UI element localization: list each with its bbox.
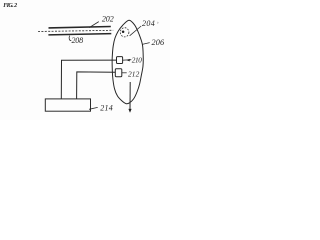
wire from box to square 212 — [77, 72, 116, 99]
stray speck — [157, 22, 158, 24]
svg-text:212: 212 — [128, 70, 140, 79]
electrode square 210 — [117, 57, 123, 64]
leader for 206 — [142, 43, 150, 45]
axis dashed line — [38, 30, 113, 31]
svg-text:FIG. 2: FIG. 2 — [3, 3, 17, 9]
svg-text:208: 208 — [72, 36, 84, 45]
leader for 202 — [89, 22, 99, 28]
node dot 204 — [122, 30, 125, 33]
svg-text:214: 214 — [100, 103, 113, 112]
leader hook for 208 — [69, 36, 71, 41]
leader for 214 — [89, 107, 98, 109]
leader for 204 — [130, 26, 142, 36]
output arrow below ellipse — [129, 82, 131, 110]
svg-text:210: 210 — [132, 57, 142, 65]
electrode square 212 — [115, 69, 122, 77]
wire from box to square 210 — [61, 60, 116, 99]
dashed circle around dot 204 — [120, 28, 129, 37]
svg-text:206: 206 — [152, 38, 165, 47]
conductor line 208 (bottom thick line) — [48, 34, 111, 35]
ellipse 206 (cell body) — [112, 20, 143, 104]
box 214 (stimulator unit) — [45, 99, 90, 111]
leader for 212 — [122, 72, 127, 74]
conductor line 202 (top thick line) — [49, 27, 111, 28]
svg-text:202: 202 — [102, 14, 114, 23]
svg-text:204: 204 — [142, 19, 155, 28]
leader with arrowhead for 210 — [123, 59, 132, 62]
